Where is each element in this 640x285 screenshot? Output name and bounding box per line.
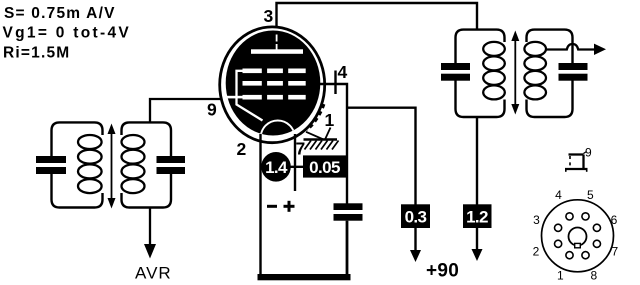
- g1 connection to pin 9 (white): [226, 96, 243, 99]
- transformer T1 primary winding box: [52, 122, 103, 156]
- chassis ground: [304, 138, 338, 140]
- wire pin4 branch to 0.3: [347, 108, 416, 205]
- wire 0.3 to arrow: [414, 228, 416, 251]
- svg-text:1.2: 1.2: [466, 207, 488, 226]
- svg-text:Ri=1.5M: Ri=1.5M: [3, 45, 70, 62]
- transformer T2 primary winding box: [456, 30, 505, 64]
- bottom rail: [258, 274, 351, 280]
- capacitor C1 (left of T1): [36, 156, 66, 163]
- svg-text:1: 1: [325, 110, 335, 130]
- shield to chassis wire: [306, 132, 324, 140]
- coil L1 primary loops: [78, 135, 102, 149]
- svg-text:4: 4: [338, 62, 348, 82]
- wire T2 bottom to 1.2: [476, 117, 478, 205]
- T1 tuning core arrow: [111, 131, 113, 200]
- svg-text:7: 7: [612, 244, 619, 258]
- wire 1.2 to arrow: [476, 228, 478, 250]
- pin 4 lead-through tick: [334, 71, 336, 95]
- transformer T1 secondary winding box: [122, 122, 172, 156]
- svg-text:4: 4: [555, 188, 562, 202]
- meter 1.4: [261, 152, 291, 182]
- grid g1 row: [243, 95, 262, 100]
- svg-text:2: 2: [533, 244, 540, 258]
- svg-text:9: 9: [207, 100, 217, 120]
- svg-text:1.4: 1.4: [265, 158, 288, 177]
- AVR arrow: [144, 244, 156, 259]
- svg-text:AVR: AVR: [135, 264, 172, 283]
- svg-text:6: 6: [611, 213, 618, 227]
- svg-text:Vg1= 0 tot-4V: Vg1= 0 tot-4V: [3, 25, 132, 42]
- arrow +90 right: [472, 249, 483, 261]
- battery minus: [267, 205, 277, 208]
- anode lead: [276, 35, 278, 42]
- output arrow: [594, 44, 606, 55]
- svg-text:3: 3: [533, 213, 540, 227]
- grid g2 row: [243, 81, 262, 86]
- capacitor C5 (right of T2): [559, 63, 588, 70]
- coil L3 primary loops: [483, 42, 505, 56]
- socket pin holes: [566, 213, 573, 220]
- heater lead pin 7: [294, 134, 296, 191]
- svg-text:1: 1: [557, 269, 564, 283]
- wire pin 3 to T2 top: [277, 3, 478, 30]
- svg-text:0.05: 0.05: [309, 158, 340, 177]
- capacitor C4 (left of T2): [441, 63, 470, 70]
- tube V1 envelope: [220, 27, 325, 143]
- svg-text:5: 5: [587, 188, 594, 202]
- internal shield dashed arc: [307, 104, 324, 130]
- cathode lead pin 2: [259, 134, 261, 276]
- socket spigot: [569, 228, 587, 246]
- g3 to cathode internal strap: [237, 71, 263, 121]
- svg-text:8: 8: [590, 269, 597, 283]
- resistor 1.2: [463, 204, 492, 228]
- capacitor C3: [334, 203, 363, 210]
- svg-text:3: 3: [264, 6, 274, 26]
- anode plate bar: [251, 49, 303, 54]
- wire T1 secondary top to pin 9: [150, 99, 222, 122]
- top cap icon: [569, 153, 584, 155]
- resistor 0.3: [401, 204, 430, 228]
- battery plus: [284, 205, 295, 208]
- grid g3 row: [243, 69, 262, 74]
- svg-text:+90: +90: [426, 260, 459, 281]
- cathode circle white arc: [261, 121, 295, 155]
- resistor 0.05: [303, 155, 346, 177]
- wire T1 secondary bottom to AVR: [149, 208, 151, 246]
- wire C3 to rail: [346, 221, 349, 276]
- wire pin 4 from g2: [320, 84, 348, 204]
- svg-text:0.3: 0.3: [405, 207, 427, 226]
- arrow +90 left: [410, 250, 421, 262]
- coil L4 secondary loops: [524, 42, 546, 56]
- wire meter to 0.05: [261, 166, 306, 168]
- socket outline: [542, 200, 614, 272]
- pin 1 stub: [325, 128, 331, 140]
- output wire with hop: [547, 44, 596, 50]
- T2 tuning core arrow: [514, 38, 516, 106]
- capacitor C2 (right of T1): [157, 156, 186, 163]
- tube V1 black disc: [226, 31, 321, 136]
- transformer T2 secondary winding box: [527, 30, 573, 63]
- svg-text:S= 0.75m A/V: S= 0.75m A/V: [4, 5, 116, 22]
- svg-text:2: 2: [237, 139, 247, 159]
- coil L2 secondary loops: [122, 135, 145, 149]
- svg-text:9: 9: [585, 146, 592, 160]
